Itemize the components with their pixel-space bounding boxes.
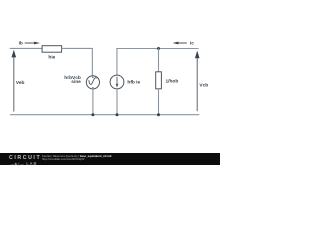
wire from hie to source top with corner	[61, 48, 92, 76]
wire current source bottom	[116, 89, 118, 115]
bottom rail wire	[10, 114, 199, 116]
current label ic with arrow	[173, 41, 195, 47]
wire top-left segment	[10, 47, 43, 49]
footer bar	[0, 153, 220, 165]
footer credits text	[42, 155, 111, 161]
svg-text:1/hob: 1/hob	[166, 79, 179, 85]
wire output top rail	[117, 49, 199, 76]
svg-text:sine: sine	[71, 79, 81, 85]
svg-text:ic: ic	[190, 41, 194, 47]
svg-text:hie: hie	[48, 55, 55, 61]
junction node bottom 3	[157, 113, 160, 116]
CircuitLab logo	[9, 156, 41, 160]
svg-text:Veb: Veb	[16, 80, 25, 86]
resistor hie	[42, 46, 62, 61]
wire to 1/hob top	[158, 49, 160, 72]
svg-text:hfb ie: hfb ie	[127, 80, 140, 86]
resistor 1/hob	[156, 72, 179, 89]
wire 1/hob bottom	[158, 89, 160, 115]
voltage source hrbVcb sine	[64, 75, 99, 89]
wire source bottom	[92, 89, 94, 115]
junction node bottom 2	[116, 113, 119, 116]
current label ib with arrow	[19, 40, 40, 46]
voltage annotation Vcb	[195, 51, 208, 112]
junction node bottom 1	[91, 113, 94, 116]
voltage annotation Veb	[12, 50, 25, 112]
current source hfb ie	[110, 75, 140, 89]
svg-text:Vcb: Vcb	[199, 82, 208, 88]
junction node top	[157, 47, 160, 50]
svg-text:ib: ib	[19, 40, 23, 46]
